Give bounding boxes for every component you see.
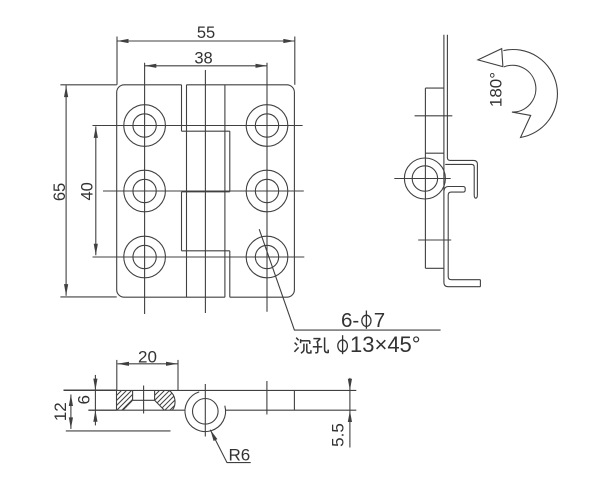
barrel inner circle (side view): [412, 166, 437, 191]
hole section wall left: [132, 391, 134, 401]
hole 3 counterbore circle: [124, 170, 166, 212]
R6 leader line: [210, 430, 250, 463]
bottom view centerline barrel: [204, 384, 206, 437]
side view hole centerline row 3: [418, 239, 451, 241]
leaf gap line lower-right segment: [229, 251, 231, 297]
dim 6 arrow bottom: [93, 410, 97, 422]
dim 40 arrow bottom: [94, 244, 98, 256]
front leaf edge line: [424, 88, 426, 268]
bottom view bar bottom edge left (with 6 extension): [88, 409, 185, 411]
hole callout leader: [259, 229, 440, 330]
dim 55 extension left: [116, 37, 118, 85]
dim 5.5 arrow bottom: [348, 411, 352, 423]
section hatching right block: [138, 388, 197, 412]
hole 1 counterbore circle: [124, 105, 166, 147]
dim 65 extension top: [60, 84, 116, 86]
hole 4 counterbore circle: [246, 170, 288, 212]
hole section countersink shoulder: [133, 399, 155, 401]
bottom view bar left edge: [116, 390, 118, 410]
svg-text:12: 12: [51, 402, 70, 421]
side view hole centerline row 1: [415, 115, 453, 117]
hole 6 counterbore circle: [246, 236, 288, 278]
bottom view bar bottom edge right (continues as 5.5 extension): [226, 409, 357, 411]
hole section chamfer left: [123, 400, 133, 410]
dim 5.5 line: [349, 378, 351, 448]
dim 65 arrow bottom: [64, 284, 68, 296]
svg-text:7: 7: [374, 309, 385, 332]
side plate left surface + bottom flange bottom: [444, 35, 481, 287]
dim 65 extension bottom: [60, 296, 116, 298]
dim 38 line: [145, 65, 267, 67]
bottom flange end cap: [479, 280, 481, 287]
hole 3 through circle: [133, 179, 156, 202]
dim 40 line: [95, 126, 97, 255]
knuckle line right (full height): [224, 85, 226, 297]
dim 6 extension top: [64, 389, 117, 391]
leaf gap line mid-left segment: [181, 192, 183, 251]
knuckle step 2: [182, 191, 230, 193]
knuckle step 1: [182, 130, 230, 132]
barrel inner circle (bottom view): [193, 399, 219, 425]
dim 12 arrow bottom: [69, 417, 73, 429]
svg-text:5.5: 5.5: [329, 423, 348, 447]
dim 38 arrow left: [145, 64, 157, 68]
dim 55 arrow right: [283, 39, 295, 43]
dim 20 arrow right: [166, 362, 178, 366]
hole section wall right: [154, 391, 156, 401]
hole 5 through circle: [133, 245, 156, 268]
svg-text:6: 6: [74, 395, 93, 404]
dim 12 line: [70, 395, 72, 429]
dim 65 line: [65, 85, 67, 296]
svg-text:65: 65: [51, 183, 69, 201]
label 6-phi7 phi symbol: [362, 315, 371, 326]
dim 40 arrow top: [94, 126, 98, 137]
dim 55 line: [117, 40, 295, 42]
bottom view centerline left hole: [143, 386, 145, 414]
svg-text:180°: 180°: [486, 72, 505, 107]
dim 12 extension bottom: [66, 430, 171, 432]
dim 20 extension left: [116, 360, 118, 391]
hole 1 through circle: [133, 114, 156, 137]
hole 5 counterbore circle: [124, 236, 166, 278]
knuckle line left (full height): [186, 85, 188, 297]
front leaf bottom edge: [425, 267, 444, 269]
dim 6 arrow top: [93, 379, 97, 391]
dim 5.5 arrow top: [348, 379, 352, 391]
centerline hinge pin: [204, 70, 206, 313]
dim 20 extension right: [177, 360, 179, 391]
leaf gap line upper-left segment: [181, 85, 183, 131]
rear leaf top edge: [425, 152, 444, 154]
barrel outer circle (side view): [404, 158, 445, 199]
hole 6 through circle: [255, 245, 278, 268]
label chinese char chen(sunk): [296, 338, 298, 341]
knuckle step 3: [182, 250, 230, 252]
side plate right surface + upper flange + finger: [445, 35, 477, 199]
barrel fillet R6 arc: [169, 391, 175, 411]
dim 38 arrow right: [256, 64, 268, 68]
hole 2 counterbore circle: [246, 105, 288, 147]
svg-text:R6: R6: [229, 446, 251, 465]
side view barrel centerline: [394, 178, 450, 180]
centerline hole row 3: [93, 256, 305, 258]
dim 6 line: [94, 375, 96, 426]
hinge body outline (front view): [117, 85, 295, 297]
bottom view leaf seam: [293, 390, 295, 410]
dim 12 arrow top: [69, 395, 73, 407]
dim 65 arrow top: [64, 86, 68, 98]
bottom view centerline right hole: [266, 381, 268, 415]
rotation arrow head: [478, 49, 503, 67]
dim 55 arrow left: [117, 39, 129, 43]
svg-text:20: 20: [138, 347, 157, 366]
centerline hole row 2: [103, 190, 304, 192]
dim 20 arrow left: [118, 362, 130, 366]
dim 55 extension right: [294, 37, 296, 85]
dim 20 line: [118, 363, 178, 365]
svg-text:6-: 6-: [341, 309, 359, 332]
barrel outer circle (bottom view): [185, 392, 226, 432]
svg-text:40: 40: [79, 182, 97, 200]
leaf gap line mid-right segment: [229, 131, 231, 192]
centerline hole row 1: [93, 125, 303, 127]
svg-text:55: 55: [197, 24, 215, 42]
dim 6 extension bottom: [88, 409, 116, 411]
hole 4 through circle: [255, 179, 278, 202]
label chinese char kong(hole): [313, 338, 320, 340]
front leaf top edge: [425, 87, 444, 89]
centerline right hole column: [266, 63, 268, 312]
centerline left hole column: [144, 63, 146, 314]
R6 leader arrow: [210, 430, 217, 441]
svg-text:13×45°: 13×45°: [350, 332, 421, 357]
side middle finger and inner contour to bottom flange: [444, 187, 480, 280]
label countersink phi symbol: [338, 340, 348, 352]
bottom view bar top edge (continues as 5.5 extension): [64, 389, 357, 391]
rotation arrow band: [503, 50, 557, 138]
svg-text:38: 38: [194, 49, 212, 67]
hole 2 through circle: [255, 114, 278, 137]
hole section chamfer right: [155, 400, 165, 410]
